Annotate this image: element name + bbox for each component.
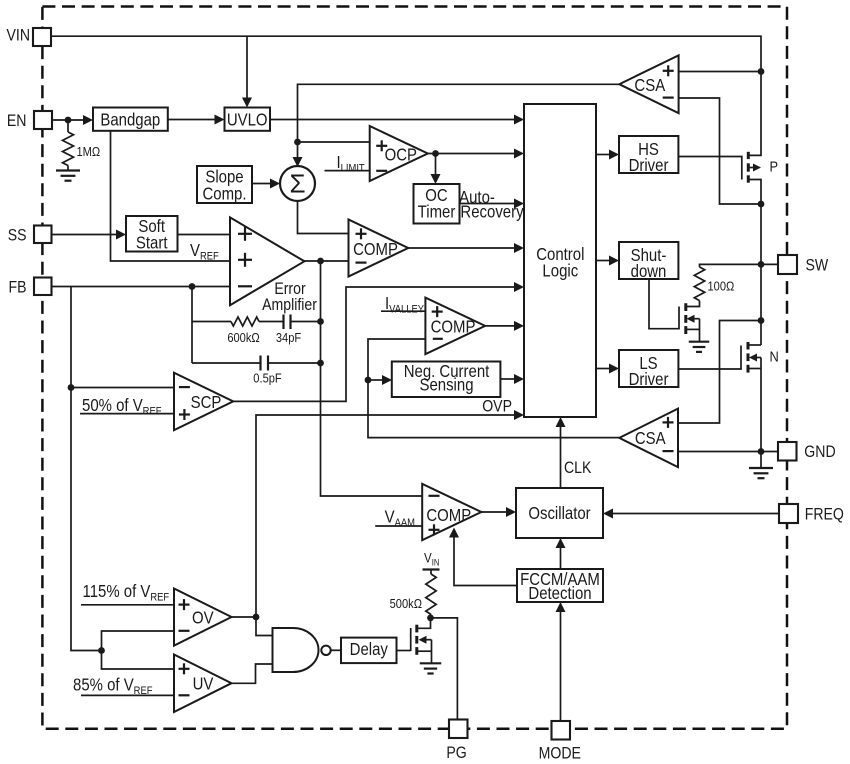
svg-text:down: down [631,262,667,281]
node N-FET drain junction [758,317,765,324]
wire OCP output to Control Logic [428,153,515,155]
pin FREQ [779,504,798,523]
label N [770,347,779,364]
capacitor 0.5pF branch [192,362,260,364]
ground under 1Mohm [56,169,80,171]
wire FREQ to Oscillator [612,513,778,515]
svg-text:SS: SS [8,227,27,245]
svg-text:500kΩ: 500kΩ [390,596,422,611]
block Shut-down [619,242,678,279]
svg-text:MODE: MODE [539,744,581,762]
wire SCP - input [71,387,174,389]
wire FCCM/AAM to AAM COMP [454,537,517,586]
transistor shutdown FET channel bars [684,303,687,311]
node SCP tap [68,384,75,391]
node OV output junction [253,614,260,621]
pin FB [34,278,52,296]
svg-text:Bandgap: Bandgap [100,110,160,129]
svg-text:600kΩ: 600kΩ [227,330,259,345]
summing junction [280,166,315,201]
label 85% of VREF [73,675,152,697]
block OC Timer [414,184,460,224]
svg-text:85% of VREF: 85% of VREF [73,675,152,697]
wire OC Timer auto-recovery to Control Logic [460,203,516,205]
wire 1M pulldown stem [67,120,69,132]
svg-text:N: N [770,347,779,364]
wire junction to PG pin [431,618,458,722]
comparator SCP [174,373,233,431]
wire FCCM/AAM Detection to Oscillator [560,548,562,570]
svg-text:Start: Start [136,233,168,252]
svg-text:VAAM: VAAM [385,507,415,529]
svg-text:COMP: COMP [353,240,398,259]
block Neg Current Sensing [392,362,501,398]
wire SW pin [761,263,778,265]
op-amp Error Amplifier [230,217,304,305]
comparator OV [174,589,232,646]
label P [770,158,779,175]
svg-text:GND: GND [804,443,835,461]
transistor shutdown FET body arrow [695,318,700,320]
wire PG FET drain [417,618,431,628]
node CSA/OCP junction [294,139,301,146]
node CSA + VIN junction [758,68,765,75]
NAND gate [273,628,319,672]
wire CSA signal to OCP + input [298,141,370,143]
wire SW to 100ohm discharge branch [700,264,762,267]
svg-text:FREQ: FREQ [805,506,844,524]
svg-text:CSA: CSA [635,429,666,448]
wire OV/UV input feed [102,631,175,669]
wire FB branch down to SCP and OV/UV [71,287,102,651]
comparator IVALLEY COMP [425,298,485,355]
wire NAND output to Delay [331,649,341,651]
wire error amp feedback vertical [191,287,193,364]
wire Error Amplifier output to PWM COMP - [304,260,348,262]
wire summer to PWM COMP + input [298,201,349,234]
svg-text:EN: EN [7,112,27,130]
wire VREF: Bandgap bottom to Error Amplifier + input [111,131,231,262]
pin PG [449,720,468,739]
svg-text:SCP: SCP [191,393,222,412]
node OCP output junction [432,150,439,157]
svg-text:34pF: 34pF [276,330,301,345]
svg-text:OCP: OCP [385,145,417,164]
ground at GND pin [749,467,773,469]
wire LS Driver output to N-FET gate [678,346,741,370]
svg-text:115% of VREF: 115% of VREF [83,582,170,604]
wire Delay output to PG FET gate [397,650,411,652]
svg-text:FB: FB [8,279,26,297]
wire UVLO top feed from VIN rail [246,36,248,98]
label 1Mohm [77,144,101,159]
wire Neg Current Sensing output to Control Logic [500,378,515,380]
svg-text:COMP: COMP [426,506,471,525]
wire PWM COMP output to Control Logic [408,247,515,249]
label Auto-Recovery [459,188,495,207]
wire resistor to ground [67,166,69,171]
node P-FET source junction [758,201,765,208]
wire AAM COMP output to Oscillator [481,511,507,513]
amplifier CSA high-side [619,55,678,113]
svg-text:VIN: VIN [424,551,439,568]
node EN junction [65,117,72,124]
node negative current sensing tap [365,377,372,384]
transistor P body arrow [748,167,753,169]
wire 100ohm to shutdown FET drain [686,301,700,307]
svg-text:Comp.: Comp. [202,184,246,203]
wire MODE to FCCM/AAM Detection [560,612,562,722]
svg-text:OVP: OVP [482,398,512,416]
svg-text:VIN: VIN [6,27,30,45]
wire GND stem [760,452,762,468]
node PG pullup junction [427,615,434,622]
ground under PG FET [420,662,442,664]
svg-text:1MΩ: 1MΩ [77,144,101,159]
transistor PG FET gate bar [410,628,412,651]
wire VAAM underline [375,525,422,527]
svg-text:OV: OV [192,608,214,627]
svg-text:Driver: Driver [629,370,669,389]
wire Control Logic to Shut-down [596,260,610,262]
wire Control Logic to LS Driver [596,368,610,370]
wire OV output [232,616,257,618]
wire HS Driver output to P-FET gate [678,157,741,180]
svg-text:PG: PG [446,744,466,762]
wire CSA - input from P-FET source [679,98,761,204]
wire 500k to junction [430,615,432,618]
wire low-side CSA + input from SW node [678,321,761,424]
wire EN to Bandgap [52,119,85,121]
wire Shut-down to FET gate [649,279,679,329]
label 0.5pF [253,371,281,386]
wire CLK Oscillator to Control Logic [560,427,562,489]
block Soft Start [126,216,178,252]
block FCCM/AAM Detection [517,569,603,602]
label 34pF [276,330,301,345]
transistor PG FET body arrow [427,639,432,641]
wire OV output to NAND top input [256,617,273,636]
transistor PG FET channel bars [415,625,418,633]
svg-text:Recovery: Recovery [460,202,524,221]
label IVALLEY [385,294,424,316]
pin VIN [33,28,51,46]
block LS Driver [619,350,678,387]
node GND junction [758,448,765,455]
svg-text:Oscillator: Oscillator [528,504,591,523]
svg-text:Σ: Σ [289,169,305,199]
svg-text:Detection: Detection [528,584,591,603]
svg-text:UV: UV [193,674,214,693]
wire SS to Soft Start [51,234,118,236]
label VREF [190,241,219,263]
svg-text:Timer: Timer [418,203,456,222]
label OVP [482,398,512,416]
wire low-side CSA output to IVALLEY COMP - input [368,339,619,438]
block Delay [341,638,397,664]
transistor N body arrow [756,357,761,359]
label 100ohm [708,279,735,294]
node error amp output junction [317,258,324,265]
resistor 500kohm [426,574,436,615]
wire Bandgap to UVLO [168,119,216,121]
svg-text:Driver: Driver [629,156,669,175]
wire CSA + input from VIN rail [679,71,761,73]
node FB feedback junction [189,283,196,290]
resistor 1Mohm [63,132,74,166]
pin SW [778,255,797,274]
transistor P channel bars [747,152,750,159]
wire Control Logic to HS Driver [596,154,610,156]
wire CSA output to summer and OCP [298,84,620,158]
wire VIN rail: VIN pin to P-FET drain (top rail) [51,36,761,155]
wire SCP output to Control Logic [233,287,515,401]
svg-text:COMP: COMP [431,317,476,336]
label VIN pullup [424,551,439,568]
block UVLO [225,108,271,131]
wire PG FET source to ground [417,650,432,652]
wire 600k/34p compensation branch [192,321,231,323]
wire Soft Start to Error Amplifier [178,234,231,236]
svg-text:Amplifier: Amplifier [262,296,317,314]
ground under shutdown FET [689,341,710,343]
resistor 100ohm [694,267,704,301]
wire FB to Error Amplifier - input [51,286,230,288]
comparator PWM COMP [349,220,409,277]
wire OCP output to OC Timer [435,154,437,176]
svg-text:VREF: VREF [190,241,219,263]
label 115% of VREF [83,582,170,604]
block Bandgap [93,108,168,131]
pin GND [778,442,797,461]
node compensation junction lower [317,360,324,367]
block HS Driver [619,136,678,173]
wire Slope Comp to summer [252,183,272,185]
node compensation junction upper [317,318,324,325]
pin SS [34,226,52,244]
svg-text:UVLO: UVLO [227,110,268,129]
node OV/UV tap [98,647,105,654]
comparator AAM COMP [422,484,481,540]
label 500kohm [390,596,422,611]
wire error amp output down to AAM COMP - [321,261,423,496]
wire low-side CSA - input / GND pin [678,451,778,453]
block Slope Comp [197,166,252,203]
wire UV output to NAND bottom input [232,664,273,683]
svg-text:0.5pF: 0.5pF [253,371,281,386]
svg-text:Logic: Logic [542,261,578,280]
block Control Logic [524,104,596,417]
label 50% of VREF [82,396,161,418]
comparator UV [174,655,232,713]
wire P-FET source to SW rail / N-FET drain [748,180,761,346]
svg-text:CLK: CLK [564,459,592,477]
label 600kohm [227,330,259,345]
comparator OCP [370,126,428,181]
wire N-FET drain stub [748,344,761,346]
transistor N channel bars [747,342,750,350]
wire into Neg Current Sensing [368,379,384,381]
amplifier CSA low-side [619,409,678,468]
wire N-FET source rail to GND [760,358,762,452]
svg-text:SW: SW [806,256,829,274]
label CLK [564,459,592,477]
svg-text:P: P [770,158,779,175]
pin MODE [552,721,571,740]
wire UVLO to Control Logic [270,119,515,121]
svg-text:Sensing: Sensing [419,376,473,395]
svg-text:CSA: CSA [634,76,665,95]
label ILIMIT [337,153,365,175]
svg-text:IVALLEY: IVALLEY [385,294,424,316]
wire OVP line from OV output to Control Logic [256,415,515,617]
svg-text:100Ω: 100Ω [708,279,735,294]
wire shutdown FET source to ground [686,328,700,330]
label VAAM [385,507,415,529]
pin EN [34,111,52,129]
wire IVALLEY COMP output to Control Logic [485,325,515,327]
node SW junction [758,261,765,268]
block Oscillator [516,488,603,538]
svg-text:Delay: Delay [350,640,389,659]
wire VIN pullup terminal [423,568,440,570]
